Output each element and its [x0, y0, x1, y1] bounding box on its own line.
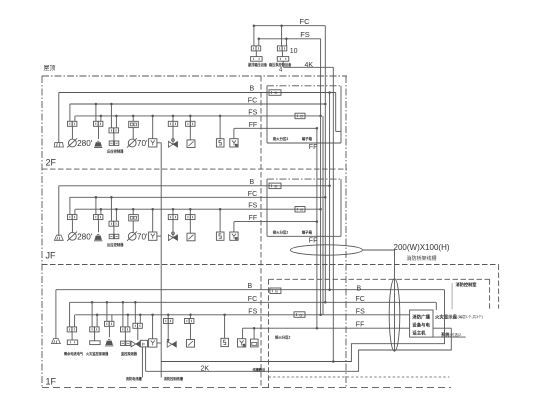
svg-text:B: B: [357, 285, 362, 292]
svg-text:监控探测器: 监控探测器: [121, 351, 138, 356]
svg-text:FS: FS: [248, 308, 257, 315]
svg-text:反应控制器: 反应控制器: [107, 242, 124, 247]
svg-text:2F: 2F: [46, 158, 57, 168]
svg-text:B: B: [275, 290, 278, 294]
svg-text:端子箱: 端子箱: [302, 136, 313, 141]
svg-text:B: B: [250, 86, 255, 93]
svg-text:设备与电: 设备与电: [412, 321, 430, 328]
svg-text:火灾监控探测器: 火灾监控探测器: [86, 351, 109, 356]
svg-text:280': 280': [77, 139, 93, 148]
svg-text:屋顶: 屋顶: [44, 65, 56, 72]
svg-text:FS: FS: [248, 203, 257, 210]
svg-text:接火分区3: 接火分区3: [273, 136, 289, 141]
svg-text:FF: FF: [309, 238, 318, 245]
svg-text:FS: FS: [248, 109, 257, 116]
svg-text:70': 70': [137, 139, 148, 148]
svg-text:P: P: [142, 342, 145, 347]
svg-text:FF: FF: [356, 322, 365, 329]
svg-text:火灾显示盘: 火灾显示盘: [435, 313, 458, 320]
svg-text:消防电线槽: 消防电线槽: [126, 376, 143, 381]
svg-text:FC: FC: [356, 296, 365, 303]
svg-text:4K: 4K: [305, 62, 314, 69]
svg-text:线槽敷设: 线槽敷设: [253, 367, 267, 372]
svg-text:FF: FF: [249, 122, 258, 129]
svg-text:(每层1个,共3个): (每层1个,共3个): [458, 314, 483, 319]
svg-text:FF: FF: [249, 215, 258, 222]
svg-text:反应控制器: 反应控制器: [107, 149, 124, 154]
svg-text:1F: 1F: [46, 377, 57, 387]
svg-text:70': 70': [137, 232, 148, 241]
svg-text:稳压泵控制设备: 稳压泵控制设备: [269, 62, 292, 67]
svg-text:FS: FS: [356, 308, 365, 315]
svg-text:G: G: [300, 208, 303, 212]
svg-text:G: G: [299, 313, 302, 317]
svg-text:剩余电流电气: 剩余电流电气: [64, 351, 84, 356]
svg-text:消防控制线槽: 消防控制线槽: [164, 376, 184, 381]
svg-text:接火分区2: 接火分区2: [275, 334, 291, 339]
svg-text:消防桥架线槽: 消防桥架线槽: [407, 255, 437, 262]
svg-text:FC: FC: [248, 296, 257, 303]
svg-text:FS: FS: [300, 30, 310, 39]
svg-text:FC: FC: [300, 17, 311, 26]
svg-text:话主机: 话主机: [412, 329, 426, 336]
svg-text:接火分区2: 接火分区2: [273, 229, 289, 234]
svg-text:10: 10: [290, 48, 298, 55]
svg-text:B: B: [248, 283, 253, 290]
svg-text:G: G: [300, 115, 303, 119]
svg-text:200(W)X100(H): 200(W)X100(H): [394, 243, 450, 252]
svg-text:B: B: [250, 179, 255, 186]
svg-text:JF: JF: [46, 251, 57, 261]
svg-text:消防控制室: 消防控制室: [456, 281, 478, 288]
svg-text:屋顶稳压设备: 屋顶稳压设备: [248, 62, 268, 67]
svg-text:端子箱: 端子箱: [302, 229, 313, 234]
svg-text:2K: 2K: [201, 365, 210, 372]
svg-text:消防广播: 消防广播: [412, 313, 430, 320]
svg-text:FC: FC: [248, 98, 257, 105]
svg-text:280': 280': [77, 232, 93, 241]
svg-text:FF: FF: [309, 144, 318, 151]
svg-text:FC: FC: [248, 191, 257, 198]
